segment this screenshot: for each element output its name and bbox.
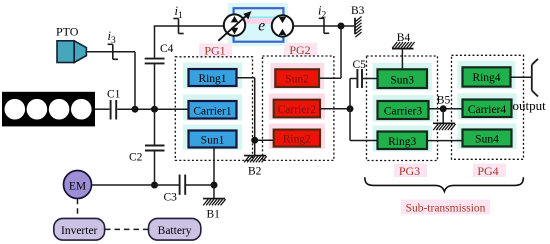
output shaft symbol xyxy=(513,59,547,113)
clutch C5 xyxy=(353,59,367,88)
clutch C4 xyxy=(145,43,174,63)
Battery box xyxy=(149,218,201,240)
node B5 xyxy=(440,105,447,112)
wire to Ring2 xyxy=(255,139,274,141)
node i2 junction xyxy=(338,23,345,30)
Carrier4 box xyxy=(463,100,512,118)
clutch C3 xyxy=(164,175,186,204)
wire Carrier3 to Carrier4 xyxy=(429,108,463,110)
Carrier1 box xyxy=(189,101,237,119)
wire Ring3 to Sun4 xyxy=(427,140,463,142)
svg-text:Sun3: Sun3 xyxy=(390,75,414,87)
wire node down to Ring3 level xyxy=(350,140,378,142)
ground B2 xyxy=(244,156,267,178)
svg-text:Ring2: Ring2 xyxy=(283,134,311,146)
svg-text:B2: B2 xyxy=(248,166,262,178)
svg-text:Sub-transmission: Sub-transmission xyxy=(406,203,486,215)
wire vertical C4 branch upper xyxy=(154,26,156,58)
wire C1 to Carrier1 xyxy=(117,108,188,110)
wire C4 to shaft xyxy=(154,64,156,109)
Ring4 box xyxy=(463,67,511,86)
node at x135 on main shaft xyxy=(132,106,139,113)
ghost halos xyxy=(183,3,517,215)
wire EM to C3 xyxy=(92,184,180,186)
Sun2 box xyxy=(275,69,319,87)
dashed link Inverter to Battery xyxy=(105,228,148,230)
svg-text:C4: C4 xyxy=(160,43,174,55)
svg-text:B5: B5 xyxy=(437,95,451,107)
wire to Sun2 xyxy=(319,77,341,79)
clutch i3 xyxy=(108,29,119,59)
svg-text:Carrier1: Carrier1 xyxy=(193,105,232,117)
wire C5 left stub xyxy=(350,78,357,80)
wire C5 to Sun3 xyxy=(363,78,378,80)
svg-text:PG3: PG3 xyxy=(399,164,420,178)
Sun3 box xyxy=(378,69,428,88)
svg-text:C5: C5 xyxy=(353,59,367,71)
wire Ring4 to output xyxy=(511,76,532,78)
svg-text:B3: B3 xyxy=(351,5,365,17)
ground B3 xyxy=(351,5,365,37)
svg-text:C1: C1 xyxy=(107,89,121,101)
svg-text:Carrier2: Carrier2 xyxy=(278,104,317,116)
Inverter box xyxy=(54,218,105,240)
PG3 dashed box xyxy=(367,56,438,161)
svg-text:Ring3: Ring3 xyxy=(388,136,416,148)
PTO symbol xyxy=(56,25,86,63)
clutch i1 xyxy=(173,4,183,34)
Ring1 box xyxy=(189,69,237,86)
Carrier2 box xyxy=(274,100,320,118)
wire C2 vertical lower xyxy=(154,151,156,185)
svg-text:Sun1: Sun1 xyxy=(201,135,225,147)
svg-text:Ring4: Ring4 xyxy=(472,72,500,84)
wire Carrier2 to node xyxy=(320,108,350,110)
node carrier2 xyxy=(347,105,354,112)
wire stub to B3 xyxy=(341,25,354,27)
PG4 dashed box xyxy=(452,55,524,159)
wire i2 junction down to Sun2 level xyxy=(340,26,342,78)
wire Ring1 right, down to Ring2 xyxy=(237,77,255,79)
Ring2 box xyxy=(274,130,320,147)
clutch i2 xyxy=(318,4,329,34)
sub-transmission brace xyxy=(365,177,524,214)
svg-text:PTO: PTO xyxy=(56,25,79,39)
svg-text:Sun2: Sun2 xyxy=(285,74,309,86)
pump P (variable) xyxy=(218,11,251,41)
svg-text:C2: C2 xyxy=(129,152,143,164)
svg-text:Battery: Battery xyxy=(158,225,192,237)
PG2 dashed box xyxy=(263,56,334,160)
svg-text:EM: EM xyxy=(69,181,86,193)
wire top line to pump xyxy=(154,25,224,27)
node at x154.5 on main shaft xyxy=(151,106,158,113)
dashed link EM to Inverter xyxy=(77,199,79,218)
wire vertical i3 corner down to shaft xyxy=(134,52,136,109)
ground B4 xyxy=(392,32,415,69)
engine block xyxy=(2,92,95,127)
svg-text:PG2: PG2 xyxy=(289,43,310,57)
clutch C1 xyxy=(107,89,121,120)
svg-text:B1: B1 xyxy=(207,209,221,221)
svg-text:e: e xyxy=(258,18,265,35)
svg-text:PG4: PG4 xyxy=(477,164,498,178)
node Ring1/Ring2/B2 xyxy=(251,137,258,144)
motor M xyxy=(272,15,293,36)
EM motor xyxy=(64,171,92,199)
svg-text:C3: C3 xyxy=(164,192,178,204)
wire engine to C1 xyxy=(95,108,110,110)
PG1 dashed box xyxy=(175,57,252,161)
Carrier3 box xyxy=(378,101,429,119)
ground B1 xyxy=(203,199,226,221)
svg-text:Carrier4: Carrier4 xyxy=(468,104,507,116)
svg-text:PG1: PG1 xyxy=(204,44,225,58)
Ring3 box xyxy=(378,132,428,150)
wire node up to C5 level xyxy=(349,79,351,141)
clutch C2 xyxy=(129,146,165,164)
wire PTO to i3 corner xyxy=(86,51,135,53)
svg-text:Sun4: Sun4 xyxy=(475,134,499,146)
wire C3 to B1 node xyxy=(186,184,214,186)
wire motor to i2 junction xyxy=(293,25,341,27)
svg-text:Carrier3: Carrier3 xyxy=(384,106,423,118)
svg-text:Ring1: Ring1 xyxy=(198,73,226,85)
wire C2 vertical upper xyxy=(154,109,156,145)
wire Sun1 down to EM line and B1 xyxy=(213,148,215,199)
svg-text:Inverter: Inverter xyxy=(61,225,98,237)
svg-text:output: output xyxy=(513,98,547,113)
ground B5 xyxy=(433,95,456,131)
Sun1 box xyxy=(189,131,237,148)
Sun4 box xyxy=(463,130,512,147)
hydraulic unit box e xyxy=(234,8,284,42)
